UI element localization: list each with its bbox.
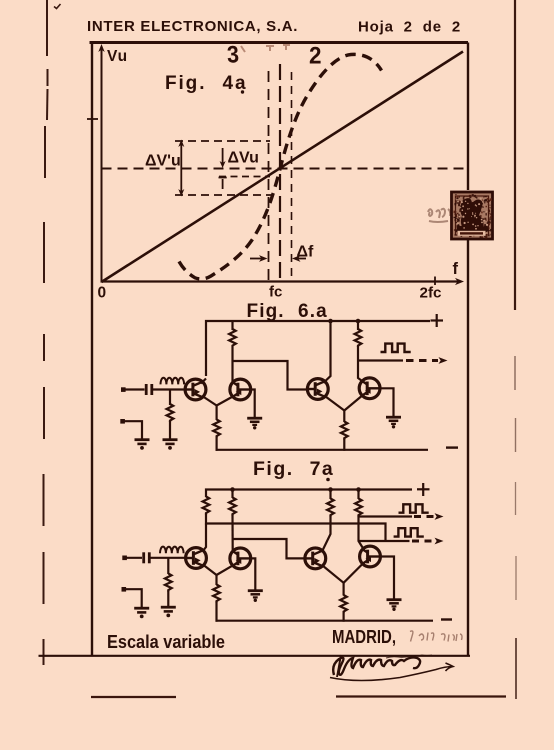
wire resistor 2 to minus rail (343, 439, 345, 451)
resistor R emitter 2 (341, 422, 348, 440)
wire Q2b emitter to common node (217, 565, 233, 575)
wire input to capacitor (124, 388, 145, 390)
svg-text:MADRID,: MADRID, (332, 627, 396, 647)
wire junction to bias resistor (169, 390, 171, 406)
wire common node to emitter resistor (216, 405, 218, 421)
coupling wire beta to Q3b base (233, 539, 307, 558)
vertical dashed line left (268, 71, 270, 280)
resistor R2b load (229, 498, 236, 516)
svg-text:2fc: 2fc (420, 285, 442, 302)
delta V'u double arrow (178, 140, 184, 197)
x axis f (101, 278, 465, 285)
wire to minus rail b (215, 602, 217, 622)
minus sign (446, 446, 458, 448)
wire Q4 base to ground (380, 388, 394, 416)
wire junction to bias resistor b (167, 558, 169, 574)
output 2 wire solid (359, 540, 410, 542)
input terminal 2 (120, 419, 125, 424)
handwritten date (410, 631, 462, 642)
resistor R emitter 2b (340, 595, 347, 613)
square wave symbol 2 (394, 528, 424, 536)
resistor R bias b (165, 574, 172, 592)
resistor R1b load (203, 497, 210, 515)
wire Q2 base to ground (250, 390, 255, 418)
wire Q4b collector (359, 541, 364, 550)
transistor Q4 (359, 378, 380, 399)
minus supply rail (216, 449, 429, 451)
revenue stamp (452, 192, 493, 239)
ground G4 (386, 417, 401, 428)
underdot of 4a (241, 90, 244, 93)
rail junction dot B (356, 319, 361, 324)
svg-text:Escala variable: Escala variable (107, 632, 225, 652)
wire alpha horizontal to jog (206, 524, 386, 542)
wire rail to R4 (357, 321, 359, 330)
minus supply rail 2 (216, 620, 434, 622)
resistor R4 collector load (355, 329, 362, 347)
wire common node to emitter resistor b (215, 574, 217, 585)
svg-text:Vu: Vu (107, 48, 128, 65)
registration tick on left frame (87, 118, 98, 120)
ground G1b (161, 607, 176, 617)
page frame (39, 41, 471, 657)
wire R2 to Q2 collector (231, 347, 233, 382)
svg-text:ΔVu: ΔVu (228, 150, 259, 167)
small up T mark below center line (219, 178, 227, 190)
capacitor C1 (146, 384, 152, 395)
square wave symbol (381, 344, 411, 352)
wire input to capacitor C1b (125, 557, 142, 559)
coupling wire R2 node to Q3 base (233, 361, 308, 390)
wire common node 2 down (343, 410, 345, 423)
delta f left arrow (250, 255, 268, 262)
vertical dashed line fc center (279, 64, 281, 281)
transistor Q4b (360, 546, 381, 567)
faint smudges between digits (241, 45, 290, 52)
transistor Q2b (230, 548, 251, 569)
ink scribble left of stamp (428, 209, 450, 222)
wire capacitor to base Q1b (151, 557, 188, 559)
input terminal 2b (122, 587, 127, 592)
wire R1b to node alpha (205, 514, 207, 525)
inductor L1 (161, 378, 185, 385)
transistor Q1 (185, 379, 206, 400)
wire Q3 emitter to common node 2 (325, 396, 344, 410)
input terminal 1b (122, 556, 127, 561)
center horizontal dashed line (102, 168, 468, 170)
wire Q4b base to ground (380, 557, 395, 599)
ground G4b (387, 600, 402, 611)
svg-text:Fig. 7a: Fig. 7a (253, 458, 334, 480)
wire rail to R4b (357, 490, 359, 500)
svg-text:fc: fc (269, 284, 282, 301)
wire common node 2b down (343, 582, 345, 596)
main diagonal line (102, 52, 464, 283)
underdot of 7a (326, 478, 330, 482)
vertical dashed line right (291, 72, 293, 280)
svg-text:Fig. 6.a: Fig. 6.a (247, 301, 328, 322)
ground G3b (248, 591, 263, 602)
plus sign (431, 314, 444, 327)
svg-text:Δf: Δf (297, 244, 315, 261)
wire terminal 2b (124, 589, 142, 607)
wire capacitor to base Q1 (153, 388, 187, 390)
resistor R bias (167, 404, 174, 422)
svg-text:0: 0 (98, 285, 107, 302)
plus supply rail (206, 321, 430, 376)
wire to minus rail 2b (343, 612, 345, 622)
upper short dashed line (175, 140, 270, 142)
wire Q3 collector to rail (324, 321, 331, 383)
resistor R4b load (355, 499, 362, 517)
wire R2b to Q2b collector (231, 515, 233, 552)
rail 2 junction dots (230, 487, 361, 492)
wire resistor to ground (169, 421, 171, 439)
left margin broken scan line (44, 0, 48, 665)
transistor Q3b (305, 548, 326, 569)
resistor R emitter 1 (213, 420, 220, 438)
ground G2b (134, 608, 149, 618)
lower short dashed line (175, 194, 275, 196)
resistor R3b load (327, 499, 334, 517)
resistor R emitter 1b (213, 585, 220, 603)
wire R4 to Q4 collector (358, 346, 364, 382)
square wave symbol 1 (399, 504, 429, 512)
svg-text:f: f (453, 260, 459, 278)
inductor L1b (160, 547, 184, 554)
bottom broken page line (91, 695, 506, 698)
resistor R2 collector load (229, 329, 236, 347)
wire Q3b emitter to common node 2b (323, 566, 344, 583)
wire Q1b collector (203, 524, 207, 552)
rail junction dot A (328, 319, 333, 324)
wire Q1b emitter to common node (204, 565, 217, 575)
svg-text:ΔV'u: ΔV'u (145, 153, 181, 170)
minus sign 2 (441, 618, 452, 620)
capacitor C1b (144, 552, 150, 563)
wire Q4 emitter to common node 2 (344, 396, 362, 411)
wire Q2 emitter to common node (217, 397, 233, 406)
ground G3 (247, 418, 262, 429)
transistor Q2 (230, 379, 251, 400)
input terminal 1 (121, 387, 126, 392)
svg-text:INTER ELECTRONICA, S.A.: INTER ELECTRONICA, S.A. (87, 18, 298, 35)
svg-text:Fig. 4a: Fig. 4a (165, 73, 247, 94)
wire rail to R3b (329, 490, 331, 500)
2fc tick (434, 277, 436, 286)
svg-text:2: 2 (309, 43, 322, 70)
wire resistor to minus rail (216, 437, 218, 451)
right scan edge line (515, 0, 516, 699)
output wire solid (358, 359, 403, 361)
svg-text:3: 3 (226, 41, 239, 69)
transistor Q3 (307, 379, 328, 400)
small dashed line right of center (219, 176, 270, 178)
plus supply rail 2 (206, 490, 412, 498)
plus sign 2 (417, 483, 430, 496)
ground G1 (163, 440, 178, 450)
wire rail to R2b (231, 490, 233, 499)
output 1 wire solid (359, 515, 413, 517)
small down arrow at delta Vu (220, 148, 226, 168)
wire R3b to Q3b collector (323, 516, 331, 551)
wire resistor to ground b (167, 591, 169, 607)
wire rail to R2 (231, 321, 233, 330)
dashed S-curve (179, 54, 382, 279)
wire R4b down through outputs (357, 516, 359, 542)
wire terminal 2 (123, 421, 142, 438)
wire Q1 collector (201, 379, 206, 384)
y axis Vu (98, 44, 104, 283)
check mark top-left (54, 4, 61, 9)
output wire dashed arrow (406, 357, 448, 364)
output 2 dashed arrow (412, 538, 444, 545)
ground G2 (135, 440, 150, 450)
transistor Q1b (186, 548, 207, 569)
svg-text:Hoja 2 de 2: Hoja 2 de 2 (358, 19, 461, 36)
wire Q4b emitter to common node 2b (344, 564, 363, 583)
wire Q2b base to ground (250, 558, 255, 589)
signature (330, 655, 453, 681)
delta f right arrow (292, 255, 306, 262)
wire Q1 emitter to common node (203, 397, 217, 406)
output 1 dashed arrow (414, 513, 444, 520)
